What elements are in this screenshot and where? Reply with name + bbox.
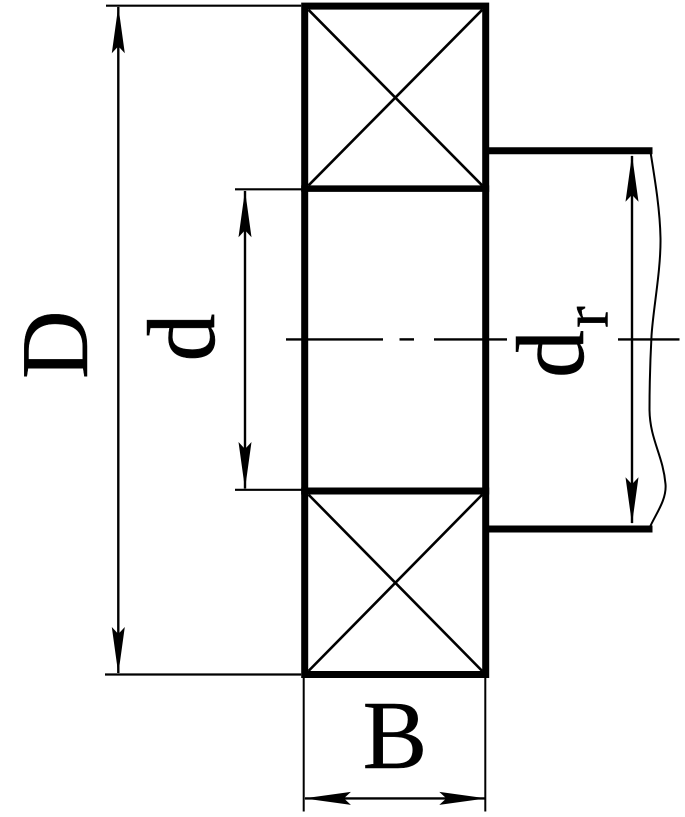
bottom X diagonal 1 — [309, 495, 483, 671]
centerline segment 3 — [618, 338, 680, 340]
centerline dash — [400, 338, 415, 340]
d bottom arrow — [239, 442, 252, 489]
d bottom extension line — [235, 489, 304, 491]
svg-text:B: B — [363, 682, 428, 789]
top X diagonal 2 — [309, 10, 483, 186]
svg-text:r: r — [551, 306, 623, 328]
bearing outer ring rectangle — [305, 6, 486, 674]
B left arrow — [304, 792, 351, 805]
top X diagonal 1 — [309, 10, 483, 186]
D top arrow — [112, 6, 125, 53]
d_r dimension line — [631, 156, 633, 523]
d_r bottom arrow — [626, 477, 639, 524]
D bottom arrow — [112, 627, 125, 674]
B left extension line — [303, 678, 305, 812]
centerline segment 1 — [286, 338, 383, 340]
shaft bottom line — [486, 526, 653, 533]
svg-text:d: d — [128, 314, 235, 362]
d dimension line — [244, 191, 246, 489]
B right arrow — [439, 792, 486, 805]
B right extension line — [484, 678, 486, 812]
bottom roller box top line — [301, 488, 489, 495]
D dimension line — [117, 7, 119, 673]
shaft top line — [486, 147, 653, 154]
shaft break wavy line — [650, 152, 666, 528]
bottom X diagonal 2 — [309, 495, 483, 671]
top roller box bottom line — [301, 185, 489, 192]
svg-text:d: d — [497, 330, 604, 378]
D top extension line — [106, 5, 301, 7]
d top arrow — [239, 190, 252, 237]
svg-text:D: D — [2, 310, 108, 379]
d top extension line — [235, 188, 304, 190]
B dimension line — [305, 797, 485, 799]
D bottom extension line — [105, 673, 301, 675]
centerline segment 2 — [434, 338, 507, 340]
d_r top arrow — [626, 155, 639, 202]
